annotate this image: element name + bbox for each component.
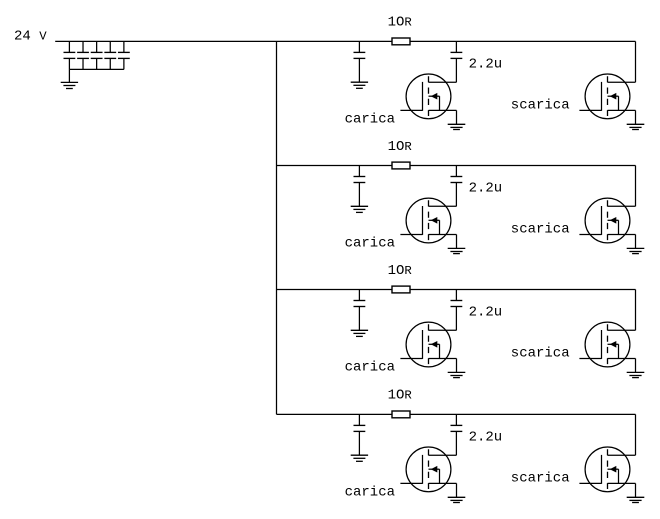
wire row 4: bus to resistor — [277, 413, 393, 415]
wire row 4: carica source to ground — [456, 483, 458, 497]
ground (bypass cap row 2) — [351, 206, 368, 212]
wire row 4: resistor to right corner — [410, 413, 636, 415]
ground (carica row 2) — [448, 248, 466, 253]
ground (capacitor bank) — [61, 82, 78, 88]
svg-text:scarica: scarica — [511, 346, 570, 362]
ground (carica row 3) — [448, 372, 466, 377]
wire row 2: carica source to ground — [456, 235, 458, 249]
wire row 3: drop to scarica drain — [635, 290, 637, 331]
ground bus wire under capacitor bank — [69, 68, 123, 70]
svg-text:2.2u: 2.2u — [469, 57, 503, 73]
capacitor row 3 2.2u — [451, 290, 463, 331]
ground (scarica row 1) — [627, 124, 645, 129]
filter capacitor C3 (bank) — [91, 41, 103, 69]
capacitor row 1 2.2u — [451, 41, 463, 82]
svg-text:scarica: scarica — [511, 97, 570, 113]
wire row 1: resistor to right corner — [410, 40, 636, 42]
capacitor row 2 2.2u — [451, 166, 463, 207]
svg-text:1OR: 1OR — [388, 139, 413, 155]
filter capacitor C4 (bank) — [104, 41, 116, 69]
filter capacitor C5 (bank) — [118, 41, 130, 69]
filter capacitor C1 (bank) — [64, 41, 76, 69]
svg-text:1OR: 1OR — [388, 388, 413, 404]
wire row 1: carica source to ground — [456, 110, 458, 124]
svg-text:1OR: 1OR — [388, 15, 413, 31]
ground (bypass cap row 4) — [351, 455, 368, 461]
svg-text:2.2u: 2.2u — [469, 181, 503, 197]
ground (bypass cap row 1) — [351, 82, 368, 88]
ground (scarica row 3) — [627, 372, 645, 377]
transistor row 1 scarica (NMOS) — [579, 74, 635, 119]
transistor row 2 scarica (NMOS) — [579, 198, 635, 243]
vertical bus wire (24V rail) — [276, 41, 278, 414]
wire row 2: bus to resistor — [277, 165, 393, 167]
wire row 2: resistor to right corner — [410, 165, 636, 167]
resistor row 3 10R — [392, 286, 410, 293]
svg-text:scarica: scarica — [511, 470, 570, 486]
transistor row 4 scarica (NMOS) — [579, 447, 635, 492]
wire row 2: drop to scarica drain — [635, 166, 637, 207]
transistor row 3 scarica (NMOS) — [579, 322, 635, 367]
svg-text:carica: carica — [345, 360, 395, 376]
svg-text:carica: carica — [345, 112, 395, 128]
transistor row 3 carica (NMOS) — [400, 322, 456, 367]
svg-text:1OR: 1OR — [388, 263, 413, 279]
transistor row 2 carica (NMOS) — [400, 198, 456, 243]
filter capacitor C2 (bank) — [77, 41, 89, 69]
transistor row 1 carica (NMOS) — [400, 74, 456, 119]
wire row 1: scarica source to ground — [635, 110, 637, 124]
svg-text:carica: carica — [345, 485, 395, 501]
svg-text:scarica: scarica — [511, 222, 570, 238]
resistor row 4 10R — [392, 411, 410, 418]
bypass capacitor row 1 — [354, 41, 366, 82]
bypass capacitor row 3 — [354, 290, 366, 331]
wire row 3: resistor to right corner — [410, 289, 636, 291]
svg-text:24 V: 24 V — [14, 28, 47, 44]
wire row 3: scarica source to ground — [635, 359, 637, 373]
bypass capacitor row 4 — [354, 414, 366, 455]
wire row 3: carica source to ground — [456, 359, 458, 373]
svg-text:carica: carica — [345, 236, 395, 252]
wire row 4: drop to scarica drain — [635, 414, 637, 455]
wire bank bus to ground — [68, 69, 70, 82]
ground (scarica row 4) — [627, 497, 645, 502]
ground (bypass cap row 3) — [351, 330, 368, 336]
resistor row 2 10R — [392, 162, 410, 169]
ground (scarica row 2) — [627, 248, 645, 253]
svg-text:2.2u: 2.2u — [469, 430, 503, 446]
ground (carica row 1) — [448, 124, 466, 129]
wire row 3: bus to resistor — [277, 289, 393, 291]
wire 24V rail to resistor row 1 — [55, 40, 392, 42]
ground (carica row 4) — [448, 497, 466, 502]
resistor row 1 10R — [392, 38, 410, 45]
bypass capacitor row 2 — [354, 166, 366, 207]
wire row 4: scarica source to ground — [635, 483, 637, 497]
wire row 1: drop to scarica drain — [635, 41, 637, 82]
wire row 2: scarica source to ground — [635, 235, 637, 249]
transistor row 4 carica (NMOS) — [400, 447, 456, 492]
capacitor row 4 2.2u — [451, 414, 463, 455]
svg-text:2.2u: 2.2u — [469, 305, 503, 321]
